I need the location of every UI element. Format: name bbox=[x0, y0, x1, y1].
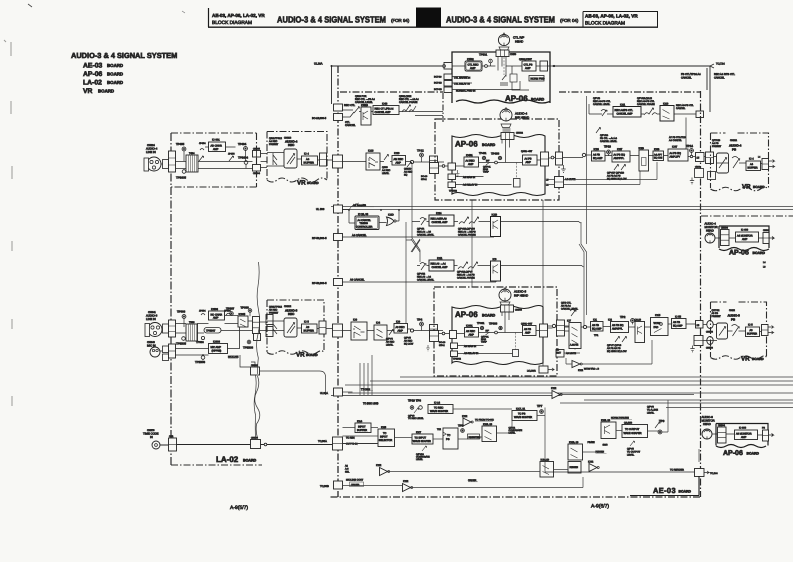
bus connector TC30B bbox=[334, 481, 343, 489]
svg-text:CANCEL PHASE: CANCEL PHASE bbox=[399, 101, 418, 104]
svg-text:Q/PVR: Q/PVR bbox=[417, 228, 424, 231]
op-amp a3 fb eq amp bbox=[591, 322, 604, 332]
svg-text:Q3,13: Q3,13 bbox=[635, 319, 642, 322]
wire stubs a3 board bbox=[439, 334, 513, 354]
mic pad boxes bbox=[163, 346, 169, 353]
svg-text:LEVEL: LEVEL bbox=[416, 458, 424, 461]
svg-text:TC,244: TC,244 bbox=[710, 472, 718, 475]
trimmer a3 rec level bbox=[389, 330, 394, 336]
op-amp tc output wave shaper bbox=[622, 425, 648, 438]
wires ic11 row bbox=[417, 266, 584, 268]
relay box a4 bbox=[514, 179, 521, 188]
svg-text:CANCEL PHASE: CANCEL PHASE bbox=[637, 103, 655, 106]
svg-text:Q/PV27 Q/PV2B: Q/PV27 Q/PV2B bbox=[607, 172, 624, 175]
op-amp IC11 pb ctl cancel amp bbox=[613, 107, 641, 118]
svg-text:30°: 30° bbox=[486, 330, 490, 333]
vertical link x543 bbox=[542, 200, 544, 368]
ground a4 out bbox=[690, 178, 694, 184]
svg-text:PRESET: PRESET bbox=[269, 312, 279, 315]
svg-text:BOARD: BOARD bbox=[482, 314, 496, 318]
svg-text:HEAD: HEAD bbox=[515, 40, 524, 44]
svg-text:TC,30B: TC,30B bbox=[320, 485, 329, 488]
svg-text:TP403: TP403 bbox=[491, 152, 500, 156]
svg-text:LINE IN: LINE IN bbox=[146, 150, 156, 154]
svg-text:CN608: CN608 bbox=[706, 347, 714, 350]
svg-text:TT CN12: TT CN12 bbox=[361, 388, 371, 391]
board edge cells VR-LL in bbox=[266, 315, 273, 325]
svg-text:SEL: SEL bbox=[345, 471, 350, 474]
svg-text:TP401: TP401 bbox=[479, 152, 487, 155]
op-amp IC46 cancel amp bbox=[373, 106, 399, 115]
board AP-06 monitor a3 outline bbox=[716, 424, 768, 448]
svg-text:IC26: IC26 bbox=[594, 148, 600, 151]
vertical link x472 bbox=[471, 200, 473, 287]
svg-text:TRAP: TRAP bbox=[483, 171, 489, 174]
svg-text:IC 633: IC 633 bbox=[739, 427, 747, 430]
op-amp IC17 tc input wave shaper bbox=[412, 434, 433, 444]
svg-text:Q6,10B: Q6,10B bbox=[624, 422, 633, 425]
trimmer ctl cancel phase right bbox=[644, 108, 657, 115]
wire stubs into board bbox=[452, 66, 520, 90]
svg-text:SW3: SW3 bbox=[603, 444, 609, 447]
board AP-06 audio-4 inner wavy outline bbox=[452, 135, 545, 196]
svg-text:CANCEL PHASE: CANCEL PHASE bbox=[457, 277, 475, 280]
svg-text:CN608: CN608 bbox=[706, 331, 714, 334]
svg-text:CANCEL LEVEL: CANCEL LEVEL bbox=[600, 140, 618, 143]
svg-text:VR: VR bbox=[741, 356, 750, 363]
svg-text:T306: T306 bbox=[189, 321, 195, 324]
svg-text:REC A4+PB CTL: REC A4+PB CTL bbox=[676, 104, 694, 107]
svg-text:Q610D: Q610D bbox=[404, 168, 412, 171]
svg-text:A? FB CTL/TP,B: A? FB CTL/TP,B bbox=[669, 136, 686, 139]
node junction a3 left bbox=[442, 332, 445, 335]
buffer IC22 a3 bbox=[572, 361, 580, 368]
trimmer a4 cancel level bbox=[420, 218, 426, 226]
svg-text:IC22: IC22 bbox=[462, 415, 468, 418]
switch IC1B,19 bbox=[568, 444, 583, 460]
trimmer TP9 bbox=[655, 422, 660, 428]
svg-text:IC22: IC22 bbox=[551, 387, 557, 390]
svg-text:CN402: CN402 bbox=[516, 132, 524, 135]
svg-text:SMT: SMT bbox=[556, 352, 561, 355]
wires a4 mute long bbox=[548, 162, 657, 185]
pot a3 pb preset bbox=[717, 323, 728, 339]
svg-text:SELECTOR: SELECTOR bbox=[379, 439, 393, 442]
svg-text:AP-06: AP-06 bbox=[723, 450, 743, 457]
svg-text:TC (REC LINE): TC (REC LINE) bbox=[363, 402, 379, 405]
board AP-06 audio-3 outer dash outline bbox=[434, 287, 557, 376]
switch IC18,19 bbox=[482, 426, 497, 442]
svg-text:IC305: IC305 bbox=[239, 313, 246, 316]
svg-text:PB/EE: PB/EE bbox=[588, 441, 595, 444]
connector LO DNR bbox=[539, 366, 548, 373]
svg-text:30°: 30° bbox=[486, 160, 490, 163]
pot a3 rec preset bbox=[284, 318, 297, 337]
fold mark black box bbox=[416, 8, 441, 28]
svg-text:BUFFER: BUFFER bbox=[357, 429, 367, 432]
node junction a4 rec bbox=[410, 160, 413, 163]
board LA-02 right wavy edge bbox=[255, 376, 260, 438]
connector CN403 cells bbox=[430, 156, 438, 170]
svg-text:BUFFER: BUFFER bbox=[304, 162, 315, 165]
svg-text:HEAD: HEAD bbox=[703, 422, 711, 426]
svg-text:IC 20, 30: IC 20, 30 bbox=[358, 213, 369, 216]
node junction a4 left bbox=[442, 165, 445, 168]
right AE-03 top dash bbox=[701, 215, 793, 217]
board edge cells a4 in bbox=[169, 151, 176, 172]
svg-text:(FOR 04): (FOR 04) bbox=[560, 18, 579, 23]
board AP-06 CTL outline bbox=[452, 52, 550, 103]
op-amp IC2 a3 pb eq amp bbox=[611, 322, 629, 333]
svg-text:IC14: IC14 bbox=[357, 420, 363, 423]
scan tick header bbox=[182, 11, 185, 13]
svg-text:AMP: AMP bbox=[469, 334, 475, 337]
wires VR-UR bbox=[717, 162, 763, 165]
svg-text:IC24: IC24 bbox=[436, 212, 442, 215]
wires ctl cancel right row bbox=[589, 104, 696, 152]
connector flange a3 bbox=[145, 324, 150, 337]
connector XLR audio-4 line in bbox=[147, 157, 161, 171]
trimmer a4 cancel phase bbox=[459, 217, 479, 224]
capacitor block IC2B a4 bbox=[639, 150, 649, 171]
transistor IC51B bbox=[361, 107, 371, 125]
node junction ctl out bbox=[553, 65, 555, 67]
svg-text:375-2: 375-2 bbox=[439, 344, 445, 347]
svg-text:WAVE SHAPER: WAVE SHAPER bbox=[413, 440, 431, 443]
svg-text:TP308: TP308 bbox=[241, 306, 250, 310]
svg-text:TC A.LINE: TC A.LINE bbox=[647, 409, 658, 412]
switch S311 bbox=[273, 322, 277, 334]
svg-text:JP406: JP406 bbox=[228, 153, 235, 156]
svg-text:Q609: Q609 bbox=[382, 166, 388, 169]
svg-text:AMP: AMP bbox=[526, 161, 532, 164]
board AP-06 audio-4 outer dash outline bbox=[435, 119, 559, 200]
svg-text:AMP: AMP bbox=[468, 163, 474, 166]
svg-text:CN60: CN60 bbox=[763, 229, 769, 232]
svg-text:BOARD: BOARD bbox=[107, 72, 123, 77]
node junction a4 right bbox=[551, 156, 554, 159]
buffer IC14b input buffer bbox=[355, 423, 371, 433]
svg-text:BOARD: BOARD bbox=[107, 63, 123, 68]
vertical links x360-372 a3 to ae03 bbox=[360, 355, 372, 395]
controller IC20,30 timing bbox=[355, 216, 379, 230]
trimmer fb ctl cancel bbox=[596, 128, 601, 134]
svg-text:(HPF8E): (HPF8E) bbox=[212, 350, 222, 353]
svg-text:EQ HIGH EQ LOW: EQ HIGH EQ LOW bbox=[607, 178, 627, 181]
svg-text:ORDER: ORDER bbox=[351, 484, 360, 487]
svg-text:A4 REC: A4 REC bbox=[382, 169, 391, 172]
svg-text:CANCEL: CANCEL bbox=[714, 77, 725, 80]
svg-text:VR: VR bbox=[83, 88, 93, 95]
svg-text:REC CTL: REC CTL bbox=[344, 104, 356, 107]
vertical link x581 cancel to a3pb bbox=[581, 222, 587, 315]
wire CN602 up into mic line bbox=[251, 362, 255, 367]
op-amp IC306 char amp bbox=[209, 311, 225, 320]
svg-text:A3 FB A4: A3 FB A4 bbox=[561, 305, 571, 308]
svg-text:AE-03, AP-06, LA-02, VR: AE-03, AP-06, LA-02, VR bbox=[585, 14, 638, 19]
svg-text:CN40: CN40 bbox=[695, 166, 701, 169]
node TP24 arrow bbox=[710, 64, 714, 68]
svg-text:TC REN: TC REN bbox=[346, 437, 355, 440]
wire ic22 a3 out bbox=[566, 340, 652, 364]
monitor out cells a3 bbox=[763, 430, 769, 441]
wires ae03 interior bbox=[343, 392, 695, 488]
out arrows a4 pb bbox=[769, 160, 775, 169]
svg-text:EQ UNI: EQ UNI bbox=[654, 157, 663, 160]
switch IC6 bbox=[351, 322, 367, 340]
svg-text:AUDIO-3 & 4 SIGNAL SYSTEM: AUDIO-3 & 4 SIGNAL SYSTEM bbox=[277, 15, 386, 25]
attenuator pad a3 bbox=[163, 324, 169, 333]
test point TPE306 bbox=[201, 356, 205, 360]
svg-text:HEAD: HEAD bbox=[706, 229, 714, 233]
svg-text:TPE308: TPE308 bbox=[243, 346, 254, 350]
wire ctl y66 right bbox=[552, 66, 710, 112]
trimmer a4 rec eq bbox=[407, 162, 412, 167]
svg-text:IC15, 19: IC15, 19 bbox=[601, 419, 611, 422]
horizontal bus pair y206 bbox=[331, 206, 793, 208]
svg-text:Q/TP1B: Q/TP1B bbox=[712, 139, 721, 142]
svg-text:BLOCK DIAGRAM: BLOCK DIAGRAM bbox=[585, 21, 625, 27]
svg-text:BOARD: BOARD bbox=[753, 251, 766, 255]
svg-text:BUFFER: BUFFER bbox=[747, 333, 757, 336]
board edge cells VR out bbox=[320, 153, 327, 166]
svg-text:TC,30A: TC,30A bbox=[318, 440, 327, 443]
svg-text:REC: REC bbox=[288, 143, 295, 147]
svg-text:CANCEL LEVEL: CANCEL LEVEL bbox=[593, 103, 611, 106]
svg-text:IC 5: IC 5 bbox=[748, 324, 753, 327]
svg-text:A4 REC: A4 REC bbox=[404, 171, 413, 174]
svg-text:LA-02: LA-02 bbox=[83, 80, 102, 87]
svg-text:WAVE SHAPER: WAVE SHAPER bbox=[430, 410, 448, 413]
svg-text:RF-50,300-5: RF-50,300-5 bbox=[312, 237, 327, 240]
node junction a4 out bbox=[690, 155, 692, 157]
board edge cells a3 inner right bbox=[540, 324, 548, 337]
gate IC2D OR bbox=[387, 217, 395, 226]
switch IC7 mute bbox=[569, 323, 581, 349]
svg-text:BOARD: BOARD bbox=[482, 143, 496, 147]
svg-text:TP301: TP301 bbox=[477, 322, 485, 325]
svg-text:CTL ERASE IN: CTL ERASE IN bbox=[454, 77, 471, 80]
board edge cells VR-UR out bbox=[762, 159, 769, 170]
svg-text:IC4: IC4 bbox=[376, 322, 381, 325]
svg-text:CN304: CN304 bbox=[718, 424, 726, 427]
svg-text:AP-06: AP-06 bbox=[505, 94, 528, 103]
svg-text:IC13: IC13 bbox=[368, 150, 374, 153]
buffer IC22 d bbox=[403, 484, 411, 492]
svg-text:TPE302: TPE302 bbox=[453, 358, 462, 361]
svg-text:REC A4 →A3 PB: REC A4 →A3 PB bbox=[458, 231, 476, 234]
transistor Q15,19 bbox=[601, 422, 616, 439]
svg-text:BOARD: BOARD bbox=[679, 490, 692, 494]
svg-text:IC18, 19: IC18, 19 bbox=[483, 423, 493, 426]
test point TPE305 bbox=[182, 337, 186, 341]
transistor IC2B bbox=[491, 217, 501, 237]
svg-text:IC23: IC23 bbox=[394, 152, 400, 155]
board outline dash top AE-03 group bbox=[330, 91, 701, 497]
svg-text:BOARD: BOARD bbox=[306, 353, 318, 357]
svg-text:CANCEL: CANCEL bbox=[676, 107, 686, 110]
pot a3 pb preset 2 bbox=[732, 325, 740, 337]
op-amp A4 PB AMP bbox=[523, 155, 538, 165]
svg-text:IC 403: IC 403 bbox=[741, 229, 749, 232]
svg-text:IC22: IC22 bbox=[578, 369, 584, 372]
svg-text:R/P HEAD: R/P HEAD bbox=[514, 294, 529, 298]
bus connector A3 cancel bbox=[334, 279, 343, 286]
svg-text:AE-03, AP-06, LA-02, VR: AE-03, AP-06, LA-02, VR bbox=[212, 13, 265, 18]
svg-text:CN1: CN1 bbox=[169, 435, 174, 438]
board edge cells a3 in bbox=[169, 320, 176, 337]
svg-text:Q/PV6: Q/PV6 bbox=[647, 406, 654, 409]
svg-text:AUDIO-3 & 4 SIGNAL SYSTEM: AUDIO-3 & 4 SIGNAL SYSTEM bbox=[71, 51, 177, 60]
svg-text:TC OUTPUT: TC OUTPUT bbox=[627, 451, 641, 454]
board AP-06 monitor a4 outline bbox=[719, 226, 769, 251]
svg-text:REGISTER: REGISTER bbox=[469, 436, 481, 439]
op-amp IC9 a3 rec amp bbox=[394, 324, 408, 334]
vertical link x668 ae03 bbox=[667, 400, 669, 432]
svg-text:TP12: TP12 bbox=[417, 149, 424, 153]
bus connector UL30A bbox=[334, 388, 343, 396]
svg-text:IC11: IC11 bbox=[437, 257, 443, 260]
wire mic/line down bbox=[203, 355, 251, 367]
svg-text:Q/PV5: Q/PV5 bbox=[627, 448, 634, 451]
svg-text:IC 55: IC 55 bbox=[675, 316, 682, 319]
monitor out cells a4 bbox=[763, 233, 769, 244]
ground a4 inner bbox=[456, 170, 460, 177]
svg-text:REC A4+PB CTL: REC A4+PB CTL bbox=[593, 100, 611, 103]
svg-text:IC303: IC303 bbox=[213, 341, 220, 344]
trimmer a3 cancel level bbox=[420, 263, 426, 271]
svg-text:IC11: IC11 bbox=[620, 104, 626, 107]
wires VR board a4 bbox=[267, 153, 366, 167]
ground a3 outer bbox=[426, 345, 430, 351]
wire a3 pb out bbox=[536, 327, 569, 331]
svg-text:Q401~407: Q401~407 bbox=[521, 150, 533, 153]
svg-text:TP19 TP8: TP19 TP8 bbox=[408, 399, 421, 403]
board edge cells a4 inner right bbox=[541, 152, 549, 166]
connector cells a3 low bbox=[254, 334, 261, 341]
svg-text:BOARD: BOARD bbox=[243, 459, 257, 463]
svg-text:TP405: TP405 bbox=[176, 142, 185, 146]
svg-text:BOARD: BOARD bbox=[753, 185, 765, 189]
wires head to amps bbox=[482, 57, 506, 77]
svg-text:NORM.THRU/EE: NORM.THRU/EE bbox=[611, 417, 629, 420]
svg-text:UL 508: UL 508 bbox=[316, 208, 325, 211]
svg-text:REGEN: REGEN bbox=[570, 466, 579, 469]
svg-text:BC-10,300-5: BC-10,300-5 bbox=[312, 117, 327, 120]
svg-text:IC17, 21: IC17, 21 bbox=[516, 408, 526, 411]
svg-text:A4 PB: A4 PB bbox=[712, 142, 719, 145]
svg-text:TP13: TP13 bbox=[604, 145, 611, 149]
svg-text:BOARD: BOARD bbox=[307, 181, 319, 185]
connector CN603 bbox=[251, 440, 261, 449]
svg-text:CANCEL AMP: CANCEL AMP bbox=[375, 111, 391, 114]
monitor head cells a4 bbox=[721, 230, 730, 246]
op-amp A3 PB AMP bbox=[523, 326, 537, 336]
ground a4 right bbox=[561, 165, 565, 172]
wire tc to ae03 right via top bbox=[260, 371, 326, 395]
wires a3 pb chain bbox=[547, 324, 717, 341]
svg-text:LEVEL: LEVEL bbox=[647, 412, 655, 415]
svg-text:LO: LO bbox=[556, 349, 559, 352]
connector tc out bbox=[695, 469, 705, 477]
svg-text:TP14: TP14 bbox=[686, 144, 693, 148]
board VR upper-right outline bbox=[711, 133, 769, 191]
svg-text:Q311/TP312: Q311/TP312 bbox=[269, 306, 283, 309]
svg-text:PRESET: PRESET bbox=[712, 145, 722, 148]
wires a3 rec to board bbox=[367, 329, 443, 331]
connector CN602 bbox=[251, 367, 260, 375]
transistor IC3 bbox=[491, 261, 501, 281]
wire ctl bus y66 left bbox=[332, 66, 443, 104]
svg-text:TPE405: TPE405 bbox=[176, 176, 187, 180]
svg-text:LO,DNR: LO,DNR bbox=[527, 370, 536, 373]
svg-text:TPE402: TPE402 bbox=[449, 190, 458, 193]
svg-text:UL30A: UL30A bbox=[320, 392, 328, 395]
svg-text:VR: VR bbox=[296, 352, 305, 359]
svg-text:AMPLIFY: AMPLIFY bbox=[670, 156, 681, 159]
svg-text:VR: VR bbox=[742, 184, 751, 191]
board edge cells ctl out bbox=[540, 61, 548, 71]
svg-text:Q/A3 CTL: Q/A3 CTL bbox=[561, 302, 572, 305]
svg-text:Q/PV12,Q/PV?: Q/PV12,Q/PV? bbox=[457, 271, 473, 274]
board edge cells a4 inner left bbox=[448, 163, 456, 170]
svg-text:PG: PG bbox=[446, 438, 450, 441]
svg-text:AP-06: AP-06 bbox=[455, 310, 478, 319]
node junction a3 mid bbox=[495, 331, 498, 334]
svg-text:AMP: AMP bbox=[470, 67, 476, 70]
svg-text:Q611/TP612: Q611/TP612 bbox=[269, 137, 283, 140]
svg-text:IC1B, 19: IC1B, 19 bbox=[569, 441, 579, 444]
connector cells a3 mid bbox=[253, 317, 260, 334]
connector CN605 cells bbox=[253, 151, 261, 158]
svg-text:A3 PB: A3 PB bbox=[712, 312, 719, 315]
vertical link x406 bbox=[406, 222, 420, 331]
svg-text:A-9(6/7): A-9(6/7) bbox=[591, 504, 609, 510]
svg-text:LA-02: LA-02 bbox=[216, 455, 239, 464]
wire tc reader bbox=[545, 468, 694, 473]
svg-text:JP304: JP304 bbox=[199, 310, 206, 313]
relay NORM FWD bbox=[529, 76, 544, 82]
svg-text:VR: VR bbox=[297, 180, 306, 187]
svg-text:CN303: CN303 bbox=[515, 309, 523, 312]
svg-text:A.MUTE: A.MUTE bbox=[570, 344, 579, 347]
trimmer a3 pb eq bbox=[615, 337, 627, 343]
wires monitor a4 bbox=[715, 237, 774, 240]
attenuator pad box bbox=[163, 160, 169, 169]
switch S611 bbox=[273, 153, 277, 165]
test point TPE405 bbox=[182, 170, 186, 174]
bus connector A4 rec bbox=[333, 155, 343, 168]
svg-text:REC: REC bbox=[288, 312, 295, 316]
trimmer tc output level bbox=[630, 441, 635, 446]
horizontal bus pair y209 bbox=[334, 209, 793, 211]
svg-text:Q/PV32: Q/PV32 bbox=[417, 273, 426, 276]
svg-text:BUFFER: BUFFER bbox=[748, 167, 758, 170]
wire ctl cancel row bbox=[342, 110, 443, 117]
connector CN303 cells bbox=[430, 325, 438, 339]
header rule bbox=[208, 26, 658, 28]
op-amp IC301 A3 rec amp bbox=[465, 328, 479, 338]
svg-text:TC,T24: TC,T24 bbox=[716, 63, 725, 66]
bus connector A4 cancel bbox=[334, 234, 343, 241]
svg-text:EQ AMP: EQ AMP bbox=[593, 157, 603, 160]
test point TPE308 bbox=[247, 340, 251, 344]
svg-text:A4 RELAY IN: A4 RELAY IN bbox=[463, 184, 478, 187]
vertical link x584 cancel to a3pb bbox=[579, 244, 584, 326]
head stem a3 bbox=[500, 302, 510, 305]
svg-text:CANCEL: CANCEL bbox=[345, 124, 356, 127]
monitor head cells a3 bbox=[718, 427, 727, 443]
